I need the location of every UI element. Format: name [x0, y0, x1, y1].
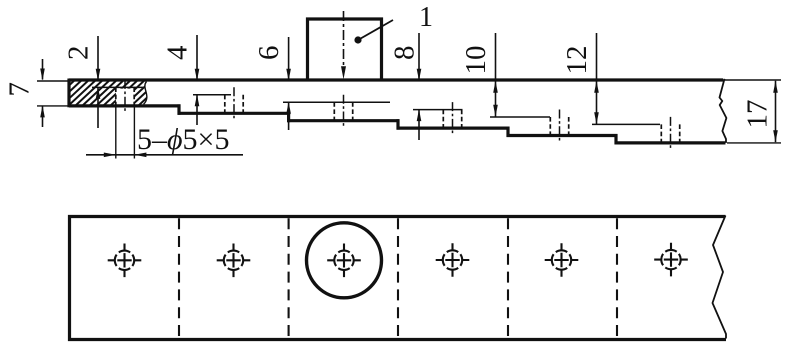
dimension 2 upper extension with down arrow [97, 36, 99, 80]
hole 6 hidden edges [660, 124, 662, 142]
bottom view break line [713, 216, 727, 339]
bar left end face [67, 79, 70, 108]
svg-text:12: 12 [561, 46, 593, 75]
bottom view hole 5 circle [569, 254, 571, 265]
dimension 7 lower line with up arrow [40, 105, 45, 117]
hole 2 centerline [233, 87, 235, 120]
hole 5 centerline [559, 110, 561, 143]
bottom view hole 2 circle [241, 255, 243, 266]
bar bottom right extension line [727, 142, 781, 144]
bottom view hole 2 crosshair [217, 259, 251, 261]
dimension 10 extension line [495, 33, 497, 117]
bar bottom edge of step 1 [69, 104, 181, 107]
depth reference line for dimension 12 [592, 123, 660, 125]
punch block 1 outline [308, 19, 382, 79]
svg-text:5–ϕ5×5: 5–ϕ5×5 [137, 123, 229, 156]
dimension 2 lower line with up arrow [96, 87, 101, 99]
svg-text:7: 7 [4, 82, 36, 97]
svg-text:4: 4 [162, 45, 194, 60]
dimension 12 inside arrows [594, 81, 599, 93]
bar bottom left extension line [37, 105, 69, 107]
dimension line for 5-phi5x5 [86, 154, 243, 156]
broken-out section boundary (wavy) [144, 82, 147, 105]
dimension 8 lower line with up arrow [417, 109, 422, 121]
step face between step 4 and step 5 [506, 127, 509, 137]
bottom view hole 3 circle [352, 255, 354, 266]
step face between step 5 and step 6 [614, 134, 617, 144]
hole 4 centerline [452, 102, 454, 135]
bar bottom edge of step 2 [178, 112, 291, 115]
bar bottom edge of step 4 [397, 127, 510, 130]
bar bottom edge of step 3 [287, 119, 399, 122]
dimension 6 upper extension with down arrow [288, 37, 290, 80]
hole 1 centerline [124, 80, 126, 113]
section divider 1 (dashed) [178, 218, 180, 338]
depth reference line for dimension 10 [490, 116, 550, 118]
bar top edge [69, 78, 723, 81]
bottom view hole 1 crosshair [108, 259, 142, 261]
dimension 17 line with outward arrows [775, 81, 777, 143]
step face between step 1 and step 2 [177, 104, 180, 114]
bottom view outline [70, 217, 727, 340]
punch block centerline with down arrow [343, 11, 345, 67]
hole 2 hidden edges [224, 95, 226, 114]
dimension 10 inside arrows [493, 81, 498, 93]
bar bottom edge of step 6 [615, 141, 726, 144]
hole 1 left extension line [115, 106, 117, 159]
step face between step 3 and step 4 [396, 119, 399, 129]
svg-text:2: 2 [63, 46, 95, 61]
hole 3 hidden edges [333, 102, 335, 121]
hole 6 centerline [670, 117, 672, 149]
hole 4 hidden edges [442, 110, 444, 129]
bottom view hole 6 crosshair [654, 259, 688, 261]
section divider 3 (dashed) [397, 218, 399, 338]
svg-text:6: 6 [253, 46, 285, 61]
leader line to label 1 [358, 20, 393, 40]
svg-text:8: 8 [389, 46, 421, 61]
dimension 7 upper line with down arrow [42, 59, 44, 68]
svg-text:1: 1 [419, 2, 433, 33]
dimension 8 upper extension with down arrow [418, 33, 420, 80]
leader dot on punch block [354, 36, 361, 43]
dimension 12 extension line [596, 33, 598, 124]
top view break line (right end) [720, 79, 727, 143]
bottom view hole 1 circle [132, 255, 134, 266]
bottom view hole 4 crosshair [436, 259, 470, 261]
bottom view hole 4 circle [460, 254, 462, 265]
svg-text:17: 17 [742, 100, 774, 129]
dimension 6 lower line with up arrow [286, 102, 291, 114]
section divider 4 (dashed) [507, 218, 509, 338]
bar top edge left extension line [37, 80, 69, 82]
dimension 4 lower line with up arrow [195, 94, 200, 106]
depth reference line for dimension 8 [413, 109, 463, 111]
step face between step 2 and step 3 [287, 112, 290, 122]
dimension 4 upper extension with down arrow [196, 35, 198, 80]
bottom view hole 6 circle [679, 254, 681, 265]
svg-text:10: 10 [460, 46, 492, 75]
bottom view hole 5 crosshair [545, 259, 579, 261]
section divider 2 (dashed) [288, 218, 290, 338]
bar top edge right extension line [723, 79, 781, 81]
hole 1 hidden edges [115, 87, 117, 106]
bottom view hole 3 crosshair [327, 259, 361, 261]
bar bottom edge of step 5 [507, 134, 618, 137]
hole 5 hidden edges [549, 117, 551, 136]
hole 3 centerline [343, 95, 345, 128]
depth reference line for dimension 4 [193, 94, 231, 96]
punch circle (large) in bottom view [307, 223, 382, 298]
depth reference line for dimension 6 [283, 101, 390, 103]
depth reference line for dimension 2 [92, 86, 143, 88]
hole 1 right extension line [133, 106, 135, 159]
section divider 5 (dashed) [616, 218, 618, 338]
